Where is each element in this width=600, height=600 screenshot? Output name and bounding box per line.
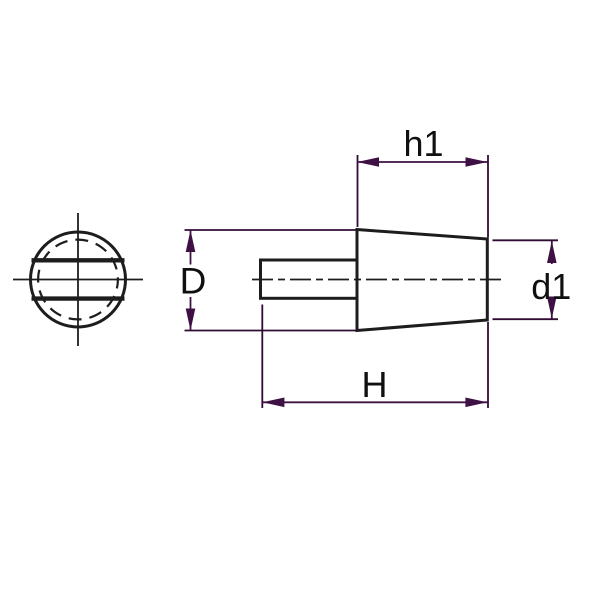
svg-text:d1: d1 — [531, 266, 571, 307]
front view lower chord (stud silhouette bottom) — [32, 296, 125, 300]
dimension d1 line lower segment — [551, 301, 553, 319]
dimension H left extension line — [261, 305, 263, 409]
side view tapered knob body — [357, 230, 487, 331]
dimension D bottom extension line — [185, 330, 358, 332]
dimension H right arrowhead — [465, 398, 487, 408]
dimension H right extension line — [487, 322, 489, 408]
dimension D line lower segment — [190, 297, 192, 331]
dimension h1 right extension line — [487, 155, 489, 238]
dimension D label — [180, 260, 207, 301]
dimension H line — [262, 401, 487, 403]
dimension D upper arrowhead — [186, 230, 196, 252]
front view hidden dashed circle — [38, 240, 118, 320]
dimension d1 lower arrowhead — [547, 297, 557, 319]
dimension d1 upper arrowhead — [547, 241, 557, 263]
front view upper chord (stud silhouette top) — [32, 258, 125, 262]
dimension h1 left arrowhead — [357, 157, 379, 167]
dimension d1 top extension line — [493, 239, 559, 241]
front view outer circle — [31, 232, 126, 327]
side view stud shaft rectangle — [261, 260, 358, 298]
side view centerline (dash-dot) — [249, 279, 501, 281]
dimension h1 left extension line — [357, 155, 359, 227]
dimension h1 label — [403, 123, 443, 164]
front view vertical centerline — [77, 213, 79, 346]
front view horizontal centerline — [13, 279, 143, 281]
dimension d1 bottom extension line — [493, 318, 559, 320]
dimension H label — [362, 364, 388, 405]
svg-text:H: H — [362, 364, 388, 405]
dimension d1 label — [531, 266, 571, 307]
svg-text:h1: h1 — [403, 123, 443, 164]
dimension H left arrowhead — [262, 398, 284, 408]
dimension h1 right arrowhead — [466, 157, 488, 167]
dimension D top extension line — [185, 229, 357, 231]
dimension d1 line upper segment — [551, 241, 553, 264]
dimension h1 line — [357, 161, 488, 163]
dimension D lower arrowhead — [186, 309, 196, 331]
svg-text:D: D — [180, 260, 207, 301]
dimension D line upper segment — [190, 230, 192, 265]
